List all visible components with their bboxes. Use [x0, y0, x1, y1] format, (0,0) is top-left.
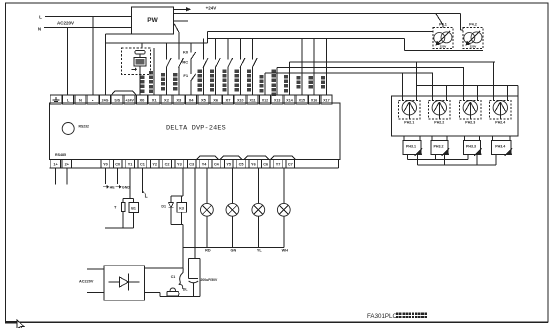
svg-text:D1: D1	[161, 205, 166, 209]
svg-text:K3: K3	[179, 207, 184, 211]
svg-text:C1: C1	[140, 162, 145, 166]
svg-text:PH3.3: PH3.3	[466, 145, 476, 149]
svg-text:PH2.3: PH2.3	[465, 121, 475, 125]
svg-text:C3: C3	[189, 162, 194, 166]
svg-text:X6: X6	[213, 98, 219, 103]
svg-text:+24V: +24V	[125, 99, 134, 103]
svg-text:+24V: +24V	[206, 6, 217, 11]
svg-text:Y7: Y7	[276, 162, 281, 166]
svg-text:200uF/50V: 200uF/50V	[201, 278, 219, 282]
svg-text:FA301PLC: FA301PLC	[367, 313, 397, 320]
svg-text:P4.1: P4.1	[439, 23, 447, 27]
svg-text:X0: X0	[139, 98, 145, 103]
svg-text:DL: DL	[183, 287, 189, 291]
svg-text:AC220V: AC220V	[79, 279, 94, 283]
svg-text:X15: X15	[299, 99, 305, 103]
svg-text:Y0: Y0	[103, 162, 108, 166]
svg-text:24G: 24G	[102, 99, 109, 103]
svg-text:Y2: Y2	[152, 162, 157, 166]
svg-text:X7: X7	[226, 98, 232, 103]
svg-text:AC220V: AC220V	[57, 21, 74, 26]
svg-text:PH3.1: PH3.1	[406, 145, 416, 149]
svg-text:C0: C0	[115, 162, 120, 166]
svg-text:C2: C2	[165, 162, 170, 166]
svg-text:X1: X1	[152, 98, 158, 103]
svg-text:X16: X16	[311, 99, 317, 103]
svg-text:F1: F1	[183, 73, 188, 78]
svg-text:220V: 220V	[470, 44, 477, 48]
svg-text:X17: X17	[323, 99, 329, 103]
svg-text:S/S: S/S	[114, 99, 120, 103]
svg-text:Y5: Y5	[226, 162, 231, 166]
svg-text:L: L	[145, 194, 148, 200]
svg-text:PH2.1: PH2.1	[404, 121, 414, 125]
svg-text:RC: RC	[182, 60, 188, 65]
svg-text:Y1: Y1	[128, 162, 133, 166]
svg-text:P4.2: P4.2	[469, 23, 477, 27]
svg-text:N: N	[38, 27, 41, 32]
svg-text:X5: X5	[201, 98, 207, 103]
svg-text:HE: HE	[110, 186, 116, 190]
svg-text:GND: GND	[122, 186, 130, 190]
svg-text:WH: WH	[282, 248, 289, 252]
svg-text:1+: 1+	[53, 162, 58, 166]
svg-text:X13: X13	[274, 99, 280, 103]
svg-text:PW: PW	[147, 17, 158, 24]
svg-text:X11: X11	[249, 99, 255, 103]
svg-text:X4: X4	[189, 98, 195, 103]
svg-text:C7: C7	[288, 162, 293, 166]
svg-text:L: L	[39, 15, 42, 20]
svg-text:Y6: Y6	[251, 162, 256, 166]
svg-text:X3: X3	[176, 98, 182, 103]
svg-text:X2: X2	[164, 98, 170, 103]
svg-text:X12: X12	[262, 99, 268, 103]
svg-text:RS232: RS232	[79, 125, 89, 129]
svg-text:PH2.4: PH2.4	[495, 121, 505, 125]
svg-text:N: N	[79, 98, 82, 103]
svg-text:PH2.2: PH2.2	[434, 121, 444, 125]
svg-text:GN: GN	[231, 248, 237, 252]
svg-text:B1: B1	[131, 207, 136, 211]
svg-text:C6: C6	[263, 162, 268, 166]
svg-text:2+: 2+	[65, 162, 70, 166]
svg-text:X14: X14	[286, 99, 292, 103]
svg-text:220V: 220V	[440, 44, 447, 48]
svg-text:PH3.4: PH3.4	[495, 145, 505, 149]
svg-text:DELTA DVP-24ES: DELTA DVP-24ES	[166, 125, 226, 133]
svg-text:PH3.2: PH3.2	[434, 145, 444, 149]
svg-text:C1: C1	[171, 275, 176, 279]
svg-text:C5: C5	[239, 162, 244, 166]
svg-text:K0: K0	[183, 50, 189, 55]
svg-text:Y3: Y3	[177, 162, 182, 166]
svg-text:RD: RD	[205, 248, 211, 252]
svg-text:X10: X10	[237, 99, 243, 103]
svg-text:RS485: RS485	[55, 153, 66, 157]
svg-text:YL: YL	[257, 248, 263, 252]
